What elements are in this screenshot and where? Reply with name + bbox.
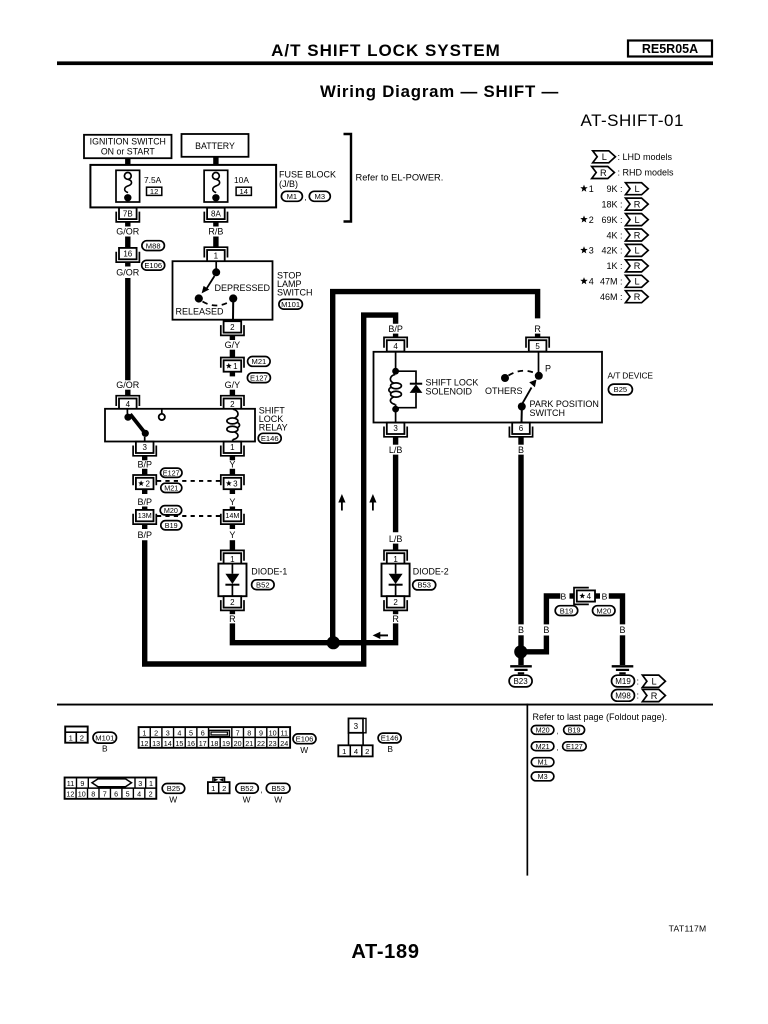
- ground M19 symbol: [612, 665, 634, 667]
- svg-text:B25: B25: [167, 784, 181, 793]
- svg-text:L: L: [635, 215, 640, 225]
- svg-text:L: L: [602, 152, 607, 162]
- wire stub below pin2: [230, 336, 235, 341]
- dashed link 13M-14M: [157, 515, 221, 517]
- connector 14M: [224, 510, 242, 521]
- svg-text:7B: 7B: [123, 209, 133, 218]
- connector M88 oval: [142, 241, 165, 251]
- legend M21 oval: [531, 742, 554, 751]
- svg-text:19: 19: [222, 739, 230, 748]
- connector view E106 oval: [293, 734, 316, 744]
- connector B19 oval: [161, 521, 182, 530]
- svg-text:3: 3: [142, 443, 147, 452]
- connector view B25: [65, 778, 157, 799]
- connector view E106 24-pin: [139, 727, 291, 748]
- svg-text:B: B: [543, 625, 549, 635]
- wire stub to *3: [230, 469, 235, 476]
- svg-text:16: 16: [123, 250, 132, 259]
- legend M1 oval: [531, 758, 554, 767]
- svg-text:DEPRESSED: DEPRESSED: [215, 283, 271, 293]
- svg-text:2: 2: [230, 323, 235, 332]
- svg-text:10: 10: [78, 790, 86, 799]
- junction dot diodes: [327, 636, 340, 649]
- legend row 69K : L: [580, 216, 587, 223]
- fuse F1 7.5A: [116, 170, 140, 202]
- stop lamp pin1 lead: [215, 261, 217, 268]
- ground B23 symbol: [510, 665, 532, 667]
- svg-text:M20: M20: [536, 726, 550, 735]
- svg-text:1: 1: [393, 555, 398, 564]
- wire Y to diode-1: [230, 540, 235, 551]
- svg-text:B: B: [387, 744, 393, 754]
- connector 8A: [207, 208, 225, 219]
- svg-text:RELEASED: RELEASED: [176, 307, 225, 317]
- svg-text:,: ,: [260, 786, 262, 795]
- ground L hexagon: [642, 675, 665, 687]
- solenoid bottom lead: [395, 409, 397, 422]
- svg-text:4: 4: [137, 790, 141, 799]
- svg-text:P: P: [545, 363, 551, 373]
- wire stub below 13M: [142, 524, 147, 529]
- svg-text:B53: B53: [417, 581, 431, 590]
- svg-text:5: 5: [126, 790, 130, 799]
- svg-text:M21: M21: [252, 357, 267, 366]
- svg-text:1: 1: [69, 734, 73, 743]
- relay pin 2: [224, 399, 242, 410]
- relay pin 1: [224, 442, 242, 453]
- svg-text:3: 3: [354, 722, 359, 731]
- svg-text:6: 6: [201, 729, 205, 738]
- svg-text:M101: M101: [95, 733, 114, 742]
- svg-text:W: W: [274, 794, 282, 804]
- wire stop-lamp branch vertical: [333, 292, 538, 640]
- svg-text:AT-SHIFT-01: AT-SHIFT-01: [581, 111, 684, 130]
- svg-text:1: 1: [342, 747, 346, 756]
- connector M20 oval c: [593, 606, 616, 616]
- svg-text:,: ,: [556, 743, 558, 752]
- svg-text:M3: M3: [538, 772, 548, 781]
- svg-text:14M: 14M: [225, 511, 239, 520]
- connector *3: [224, 478, 242, 489]
- solenoid bottom dot: [392, 406, 399, 413]
- svg-text:18K :: 18K :: [601, 199, 622, 209]
- svg-text:R/B: R/B: [208, 227, 223, 237]
- svg-text:A/T SHIFT LOCK SYSTEM: A/T SHIFT LOCK SYSTEM: [271, 41, 501, 60]
- connector view E146: [349, 718, 364, 732]
- svg-text:M98: M98: [615, 691, 631, 700]
- svg-text:42K :: 42K :: [601, 246, 622, 256]
- svg-text:B: B: [102, 743, 108, 753]
- stop lamp switch box: [173, 261, 273, 320]
- svg-text:12: 12: [66, 790, 74, 799]
- relay blade: [130, 414, 145, 433]
- svg-text:3: 3: [589, 246, 594, 256]
- AT pin 6: [512, 423, 530, 434]
- svg-text:3: 3: [393, 424, 398, 433]
- park switch pivot lead: [521, 410, 523, 422]
- svg-text:,: ,: [556, 727, 558, 736]
- wire L/B stub: [393, 436, 398, 445]
- svg-text:B: B: [619, 625, 625, 635]
- connector M19 oval: [612, 675, 635, 687]
- svg-text:SWITCH: SWITCH: [277, 288, 313, 298]
- svg-text:21: 21: [245, 739, 253, 748]
- wire stub below 14M: [230, 524, 235, 529]
- svg-text:B25: B25: [614, 385, 628, 394]
- svg-text:M1: M1: [287, 192, 298, 201]
- svg-text:M21: M21: [536, 742, 550, 751]
- svg-text:7: 7: [103, 790, 107, 799]
- svg-text:12: 12: [140, 739, 148, 748]
- svg-text:A/T DEVICE: A/T DEVICE: [608, 371, 654, 381]
- svg-text:M19: M19: [615, 677, 631, 686]
- svg-text:9: 9: [259, 729, 263, 738]
- svg-text:R: R: [600, 168, 607, 178]
- connector view B52 oval: [236, 783, 258, 793]
- shift lock relay box: [105, 409, 255, 442]
- svg-text:2: 2: [230, 400, 235, 409]
- connector 16 (M88/E106): [119, 248, 137, 259]
- relay pin4 lead: [126, 409, 128, 414]
- wire stub below pin6: [518, 437, 523, 445]
- svg-text:W: W: [300, 745, 308, 755]
- svg-text:E106: E106: [144, 261, 162, 270]
- svg-text:B52: B52: [240, 784, 254, 793]
- diode-1 pin 1: [224, 553, 242, 564]
- wire ignition to fuse block: [125, 158, 130, 166]
- shift lock solenoid coil: [390, 374, 395, 383]
- svg-text:DIODE-1: DIODE-1: [251, 567, 287, 577]
- stop lamp pin2 lead: [232, 303, 234, 320]
- svg-text:46M :: 46M :: [600, 292, 623, 302]
- svg-text:RE5R05A: RE5R05A: [642, 42, 698, 56]
- connector B53 oval: [413, 580, 436, 590]
- svg-text:E146: E146: [261, 434, 279, 443]
- svg-text:6: 6: [114, 790, 118, 799]
- legend row 9K : L: [580, 185, 587, 192]
- svg-text:23: 23: [269, 739, 277, 748]
- svg-text:M3: M3: [315, 192, 326, 201]
- svg-text:: LHD models: : LHD models: [618, 152, 673, 162]
- svg-text:13M: 13M: [138, 511, 152, 520]
- wire stub below *2: [142, 489, 147, 494]
- up arrow 1: [338, 494, 345, 503]
- wire stub out *4: [595, 593, 600, 598]
- svg-text:14: 14: [164, 739, 172, 748]
- svg-text::: :: [637, 676, 640, 686]
- connector B52 oval: [252, 580, 275, 590]
- svg-text:4: 4: [587, 592, 592, 601]
- svg-text:2: 2: [222, 784, 226, 793]
- svg-text:Refer to last page (Foldout pa: Refer to last page (Foldout page).: [533, 712, 668, 722]
- svg-text:E146: E146: [381, 734, 399, 743]
- svg-text:5: 5: [189, 729, 193, 738]
- svg-text:R: R: [229, 614, 236, 624]
- svg-text:B19: B19: [560, 606, 574, 615]
- fuse block box: [90, 165, 276, 208]
- connector M21 oval: [248, 357, 271, 367]
- svg-text:6: 6: [519, 424, 524, 433]
- wire stub to 13M: [142, 507, 147, 511]
- relay open contact: [159, 414, 165, 420]
- svg-text:1: 1: [230, 555, 235, 564]
- connector M3: [309, 191, 330, 201]
- svg-text:4: 4: [354, 747, 358, 756]
- connector E106 oval: [142, 260, 165, 270]
- svg-text:2: 2: [80, 734, 84, 743]
- svg-text:3: 3: [138, 779, 142, 788]
- svg-text:R: R: [392, 614, 399, 624]
- wire stub to diode-2: [393, 544, 398, 551]
- svg-text:2: 2: [393, 598, 398, 607]
- svg-text:B/P: B/P: [137, 460, 152, 470]
- wire B/P long to bottom elbow: [145, 315, 396, 664]
- AT pin 5: [529, 340, 547, 351]
- connector 7B: [119, 208, 137, 219]
- relay switch dot B: [142, 430, 149, 437]
- wire stub to *2: [142, 469, 147, 476]
- legend B19 oval: [564, 726, 585, 735]
- svg-text:2: 2: [589, 215, 594, 225]
- wire stub to *1: [230, 350, 235, 358]
- wire stub to 14M: [230, 507, 235, 511]
- AT pin5 lead: [538, 352, 540, 373]
- wire stub to 16: [125, 237, 130, 248]
- svg-text:1: 1: [149, 779, 153, 788]
- connector M98 oval: [612, 690, 635, 702]
- code box RE5R05A: [628, 41, 712, 57]
- depressed contact dot: [229, 294, 237, 302]
- connector B23 oval: [509, 675, 532, 687]
- svg-text:IGNITION SWITCH: IGNITION SWITCH: [90, 136, 166, 146]
- svg-text:L: L: [635, 184, 640, 194]
- wire stub below relay pin1: [230, 456, 235, 461]
- connector view B53 oval: [266, 783, 290, 793]
- wire stub to AT pin4: [393, 334, 398, 338]
- svg-text:Refer to EL-POWER.: Refer to EL-POWER.: [356, 173, 444, 183]
- svg-text:24: 24: [280, 739, 288, 748]
- svg-text:Y: Y: [229, 497, 235, 507]
- svg-text:TAT117M: TAT117M: [669, 924, 707, 934]
- svg-text:W: W: [243, 794, 251, 804]
- svg-text:E106: E106: [296, 735, 314, 744]
- svg-text:1K :: 1K :: [606, 261, 622, 271]
- svg-text:Wiring Diagram — SHIFT —: Wiring Diagram — SHIFT —: [320, 82, 559, 101]
- connector E127 oval b: [161, 468, 183, 477]
- wire branch up: [546, 596, 560, 624]
- wire L/B long: [393, 455, 398, 533]
- legend row 47M : L: [580, 277, 587, 284]
- svg-text:B19: B19: [568, 726, 581, 735]
- svg-text:G/Y: G/Y: [225, 380, 241, 390]
- connector B25 oval: [608, 384, 632, 395]
- svg-text:69K :: 69K :: [601, 215, 622, 225]
- svg-text:W: W: [169, 794, 177, 804]
- diode-2 pin 2: [387, 596, 405, 607]
- wire B long: [518, 455, 523, 625]
- svg-text:B53: B53: [271, 784, 285, 793]
- svg-text:2: 2: [365, 747, 369, 756]
- wire to ground B23: [518, 652, 523, 665]
- wire stub to AT pin5: [535, 334, 540, 338]
- svg-text:L: L: [635, 246, 640, 256]
- AT pin 4: [387, 340, 405, 351]
- wire stub below *3: [230, 489, 235, 494]
- svg-text:16: 16: [187, 739, 195, 748]
- svg-text:L/B: L/B: [389, 534, 403, 544]
- svg-text:10: 10: [269, 729, 277, 738]
- connector 2 stop lamp: [224, 321, 242, 332]
- connector view E146 oval: [378, 733, 401, 743]
- svg-text:2: 2: [230, 598, 235, 607]
- AT device box: [374, 352, 603, 423]
- connector M21 oval b: [161, 483, 182, 492]
- wire branch from junction: [526, 636, 546, 652]
- junction dot ground: [514, 645, 527, 658]
- svg-text:1: 1: [589, 184, 594, 194]
- svg-text:1: 1: [233, 362, 238, 371]
- wire battery to fuse block: [213, 156, 218, 166]
- svg-text:E127: E127: [566, 742, 583, 751]
- svg-text::: :: [637, 691, 640, 701]
- relay coil: [233, 409, 238, 418]
- svg-text:BATTERY: BATTERY: [195, 141, 235, 151]
- relay pin 4: [119, 399, 137, 410]
- stop lamp dashed arc: [203, 302, 231, 306]
- wire junction horizontal: [332, 640, 362, 645]
- svg-text:2: 2: [145, 479, 150, 488]
- svg-text:20: 20: [234, 739, 242, 748]
- diode-2 pin 1: [387, 553, 405, 564]
- svg-text:B/P: B/P: [137, 497, 152, 507]
- svg-text:: RHD models: : RHD models: [618, 168, 675, 178]
- svg-text:5: 5: [535, 342, 540, 351]
- park switch others dot: [501, 374, 509, 382]
- connector 13M (M20/B19): [136, 510, 154, 521]
- svg-text:8: 8: [91, 790, 95, 799]
- ignition switch box: [84, 135, 172, 158]
- svg-text:(J/B): (J/B): [279, 179, 298, 189]
- svg-text:14: 14: [239, 187, 247, 196]
- svg-text:G/OR: G/OR: [116, 380, 140, 390]
- diode-1 pin 2: [224, 596, 242, 607]
- svg-text:G/Y: G/Y: [225, 340, 241, 350]
- diode-1 symbol: [231, 564, 233, 574]
- svg-text:8: 8: [247, 729, 251, 738]
- svg-text:E127: E127: [250, 373, 268, 382]
- connector *4 (B19/M20): [577, 590, 595, 601]
- svg-text:1: 1: [230, 443, 235, 452]
- bracket refer EL-POWER: [344, 134, 352, 222]
- svg-text:AT-189: AT-189: [351, 941, 419, 963]
- svg-text:B: B: [518, 625, 524, 635]
- solenoid diode branch: [396, 371, 416, 384]
- wire right to ground: [620, 635, 625, 665]
- wire stub 7B: [125, 222, 130, 227]
- connector *1 (M21/E127): [224, 360, 242, 371]
- connector E127 oval: [247, 373, 270, 383]
- svg-text:B/P: B/P: [137, 530, 152, 540]
- connector view B25 oval: [162, 784, 185, 794]
- park switch dashed arc: [509, 371, 536, 376]
- svg-text:B19: B19: [165, 521, 178, 530]
- connector M101 oval: [279, 299, 303, 309]
- svg-text:RELAY: RELAY: [259, 422, 288, 432]
- svg-text:L: L: [635, 277, 640, 287]
- connector *2 (E127/M21): [136, 478, 154, 489]
- wire stub below diode-2: [393, 611, 398, 615]
- svg-text:,: ,: [304, 193, 306, 202]
- ground R hexagon: [642, 689, 665, 701]
- park switch P dot: [535, 372, 543, 380]
- svg-text:B: B: [518, 445, 524, 455]
- wire B to junction: [518, 635, 523, 658]
- svg-text:4: 4: [126, 400, 131, 409]
- wire stub 8A: [213, 222, 218, 227]
- svg-text:4: 4: [393, 342, 398, 351]
- connector M20 oval: [160, 506, 182, 515]
- stop lamp common dot: [212, 268, 220, 276]
- svg-text:R: R: [651, 691, 658, 701]
- svg-text:7: 7: [236, 729, 240, 738]
- legend M20 oval: [531, 726, 554, 735]
- connector 1 stop lamp switch: [207, 250, 225, 261]
- legend E127 oval: [563, 742, 587, 751]
- wire stub into *4: [570, 593, 575, 598]
- svg-text:7.5A: 7.5A: [144, 175, 162, 185]
- park switch blade: [522, 388, 532, 405]
- svg-text:1: 1: [142, 729, 146, 738]
- released contact dot: [195, 294, 203, 302]
- diode-2 symbol: [395, 564, 397, 574]
- svg-text:B23: B23: [513, 677, 528, 686]
- svg-text:1: 1: [211, 784, 215, 793]
- connector view M101: [65, 727, 88, 743]
- svg-text:13: 13: [152, 739, 160, 748]
- relay pin 3: [136, 442, 154, 453]
- header rule: [57, 61, 713, 65]
- svg-text:B: B: [561, 591, 567, 601]
- svg-text:15: 15: [175, 739, 183, 748]
- relay open contact lead: [161, 409, 163, 414]
- svg-text:R: R: [634, 230, 641, 240]
- wire G/OR long: [125, 262, 130, 267]
- svg-text:M21: M21: [164, 483, 178, 492]
- connection arrow left: [373, 632, 381, 639]
- wire R diode-1 to junction: [232, 623, 361, 642]
- svg-text:G/OR: G/OR: [116, 227, 140, 237]
- svg-text:4K :: 4K :: [606, 230, 622, 240]
- svg-text:4: 4: [589, 277, 594, 287]
- connector view B52-B53: [208, 782, 230, 793]
- svg-text:11: 11: [281, 729, 288, 738]
- svg-text:M1: M1: [538, 758, 548, 767]
- legend M3 oval: [531, 772, 554, 781]
- svg-text:R: R: [534, 324, 541, 334]
- legend row 42K : L: [580, 246, 587, 253]
- svg-text:11: 11: [67, 779, 74, 788]
- diode-1 box: [218, 564, 246, 597]
- svg-text:18: 18: [210, 739, 218, 748]
- svg-text:R: R: [634, 261, 641, 271]
- svg-text:L: L: [652, 677, 657, 687]
- svg-text:OTHERS: OTHERS: [485, 386, 523, 396]
- svg-text:G/OR: G/OR: [116, 268, 140, 278]
- svg-text:R: R: [634, 292, 641, 302]
- up arrow 2: [369, 494, 376, 503]
- svg-text:SWITCH: SWITCH: [530, 408, 566, 418]
- svg-text:L/B: L/B: [389, 445, 403, 455]
